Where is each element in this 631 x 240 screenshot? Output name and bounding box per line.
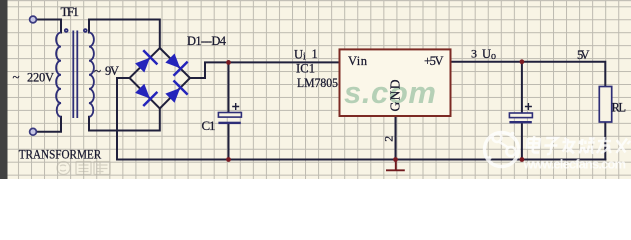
svg-text:D1---D4: D1---D4 <box>187 34 227 48</box>
svg-text:9V: 9V <box>105 64 119 78</box>
svg-text:5V: 5V <box>577 48 590 62</box>
svg-text:~: ~ <box>94 63 101 78</box>
svg-text:GND: GND <box>388 79 403 111</box>
svg-text:IC1: IC1 <box>296 62 315 76</box>
svg-text:LM7805: LM7805 <box>297 76 338 90</box>
svg-text:220V: 220V <box>27 71 54 85</box>
svg-text:C1: C1 <box>202 118 216 133</box>
svg-text:+5V: +5V <box>424 54 444 68</box>
svg-text:~: ~ <box>13 69 20 84</box>
svg-text:3: 3 <box>471 47 477 61</box>
svg-text:RL: RL <box>612 101 627 115</box>
svg-text:Vin: Vin <box>348 54 368 68</box>
svg-text:TRANSFORMER: TRANSFORMER <box>19 147 102 162</box>
svg-text:TF1: TF1 <box>61 4 80 19</box>
svg-text:1: 1 <box>312 47 318 61</box>
svg-text:www.elecfans.com: www.elecfans.com <box>523 157 627 172</box>
svg-text:2: 2 <box>382 136 396 142</box>
